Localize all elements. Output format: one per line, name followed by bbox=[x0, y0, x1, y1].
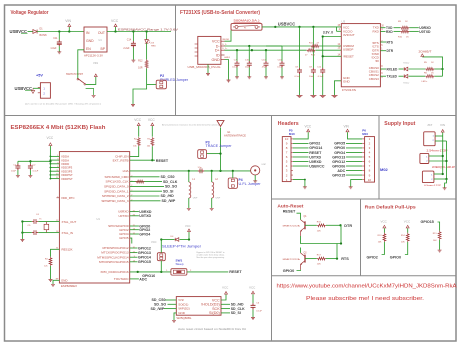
svg-text:SD_/WP: SD_/WP bbox=[151, 307, 165, 311]
svg-text:GND1: GND1 bbox=[224, 57, 231, 59]
svg-text:M10: M10 bbox=[362, 132, 368, 136]
svg-text:SD_SI: SD_SI bbox=[231, 311, 241, 315]
svg-text:0.5mm-1T2P: 0.5mm-1T2P bbox=[424, 185, 442, 187]
svg-text:(J2 can be cut to disable the: (J2 can be cut to disable the power LED … bbox=[25, 103, 101, 106]
svg-text:MMBT2222A: MMBT2222A bbox=[283, 258, 301, 261]
svg-text:ADC: ADC bbox=[139, 277, 147, 281]
svg-text:U0TXD: U0TXD bbox=[118, 214, 129, 218]
svg-text:DTR: DTR bbox=[344, 224, 352, 228]
svg-text:M10: M10 bbox=[289, 132, 295, 136]
svg-text:SD_SI: SD_SI bbox=[163, 189, 173, 193]
svg-text:ESP8266EX 4 Mbit (512KB) Flash: ESP8266EX 4 Mbit (512KB) Flash bbox=[11, 125, 106, 131]
svg-text:0.1uF: 0.1uF bbox=[33, 171, 39, 173]
svg-text:VCC: VCC bbox=[212, 40, 220, 44]
svg-text:10R: 10R bbox=[138, 67, 143, 70]
svg-text:10K: 10K bbox=[317, 264, 321, 266]
svg-text:10K: 10K bbox=[433, 240, 437, 242]
svg-text:RESET: RESET bbox=[309, 151, 322, 155]
svg-text:GPIO14: GPIO14 bbox=[138, 256, 151, 260]
svg-text:MTMSSPICLKGPIO14: MTMSSPICLKGPIO14 bbox=[97, 255, 129, 259]
svg-text:https://www.youtube.com/channe: https://www.youtube.com/channel/UCcKxM7y… bbox=[277, 283, 457, 289]
svg-text:LED's: LED's bbox=[422, 81, 429, 83]
svg-text:IN: IN bbox=[86, 31, 90, 35]
svg-text:SD_/WP: SD_/WP bbox=[162, 199, 176, 203]
svg-text:SD_SO: SD_SO bbox=[165, 185, 177, 189]
svg-text:2.2uF: 2.2uF bbox=[123, 47, 130, 50]
svg-text:EXT_RSTB: EXT_RSTB bbox=[113, 158, 129, 162]
svg-text:ADC: ADC bbox=[337, 169, 345, 173]
svg-text:2: 2 bbox=[131, 180, 132, 182]
svg-text:Please subscribe me! I need su: Please subscribe me! I need subscriber. bbox=[306, 296, 424, 302]
svg-text:U0TXD: U0TXD bbox=[419, 30, 431, 34]
svg-text:500MA(0.5A.): 500MA(0.5A.) bbox=[234, 19, 260, 23]
svg-text:RED: RED bbox=[151, 45, 156, 47]
svg-text:GPIO4: GPIO4 bbox=[139, 232, 150, 236]
svg-text:SD_CLK: SD_CLK bbox=[163, 180, 178, 184]
svg-text:VCC: VCC bbox=[185, 224, 191, 228]
svg-text:+5V: +5V bbox=[36, 73, 43, 77]
svg-text:ID: ID bbox=[216, 53, 220, 57]
svg-text:CBUS3: CBUS3 bbox=[369, 77, 379, 81]
svg-text:VCC: VCC bbox=[47, 136, 54, 140]
svg-text:!RESET: !RESET bbox=[343, 54, 354, 58]
svg-text:SPICS0SD_CMD: SPICS0SD_CMD bbox=[105, 175, 130, 179]
svg-text:RXD: RXD bbox=[386, 30, 393, 34]
svg-text:GPIO12: GPIO12 bbox=[332, 160, 345, 164]
svg-text:10K: 10K bbox=[317, 230, 321, 232]
svg-text:GPIO5: GPIO5 bbox=[334, 142, 345, 146]
svg-text:GPIO0: GPIO0 bbox=[334, 146, 345, 150]
svg-text:2.54mm-1T2P: 2.54mm-1T2P bbox=[427, 149, 449, 152]
svg-text:2: 2 bbox=[131, 200, 132, 202]
svg-text:JST: JST bbox=[427, 123, 433, 127]
svg-text:GPIO2: GPIO2 bbox=[309, 142, 320, 146]
svg-text:47pF: 47pF bbox=[262, 67, 268, 69]
svg-text:UNP: UNP bbox=[262, 164, 267, 166]
svg-text:U0TXD: U0TXD bbox=[309, 155, 321, 159]
svg-text:10: 10 bbox=[368, 178, 372, 182]
svg-text:VIN: VIN bbox=[65, 19, 71, 23]
svg-text:USB_MICROB_PLUG: USB_MICROB_PLUG bbox=[188, 66, 221, 69]
svg-text:VBUS1: VBUS1 bbox=[222, 39, 230, 41]
svg-text:RESET: RESET bbox=[229, 270, 242, 274]
svg-text:FT231XS (USB-to-Serial Convert: FT231XS (USB-to-Serial Converter) bbox=[180, 10, 260, 16]
svg-text:Yellow: Yellow bbox=[403, 63, 410, 65]
svg-text:MMBT2222A: MMBT2222A bbox=[283, 225, 301, 228]
svg-text:VCC: VCC bbox=[111, 19, 119, 23]
svg-text:GPIO15: GPIO15 bbox=[138, 260, 151, 264]
svg-text:LNA: LNA bbox=[123, 169, 130, 173]
svg-text:SD_CS0: SD_CS0 bbox=[161, 175, 175, 179]
svg-text:0.1uF: 0.1uF bbox=[277, 67, 283, 69]
svg-text:XPD_DCDCGPIO16: XPD_DCDCGPIO16 bbox=[100, 270, 128, 274]
svg-text:GND: GND bbox=[61, 279, 67, 283]
svg-text:3.3V_0: 3.3V_0 bbox=[323, 31, 333, 35]
svg-text:SWITCH-SPDT: SWITCH-SPDT bbox=[66, 73, 84, 76]
svg-text:GND: GND bbox=[178, 311, 186, 315]
svg-text:SPIWPSD_DATA_3: SPIWPSD_DATA_3 bbox=[101, 199, 128, 203]
svg-text:WJEDQ9C-S08-2P: WJEDQ9C-S08-2P bbox=[432, 166, 455, 169]
svg-text:GND: GND bbox=[343, 79, 351, 83]
svg-text:TOUTADC: TOUTADC bbox=[114, 277, 129, 281]
svg-text:MTCKSPIOGPIO13: MTCKSPIOGPIO13 bbox=[101, 251, 129, 255]
svg-text:EN: EN bbox=[86, 47, 91, 51]
svg-text:R12: R12 bbox=[138, 60, 143, 63]
svg-text:MTDOSPICSGPIO15: MTDOSPICSGPIO15 bbox=[99, 260, 129, 264]
svg-text:USBDP: USBDP bbox=[343, 47, 353, 51]
svg-text:UNP: UNP bbox=[216, 198, 221, 200]
svg-text:RXLED: RXLED bbox=[387, 67, 399, 71]
svg-text:0.1uF: 0.1uF bbox=[295, 76, 301, 78]
svg-text:Supply Input: Supply Input bbox=[384, 121, 415, 127]
svg-text:2: 2 bbox=[131, 195, 132, 197]
svg-text:2: 2 bbox=[131, 176, 132, 178]
svg-text:VCC: VCC bbox=[249, 285, 256, 289]
svg-text:VR1: VR1 bbox=[93, 61, 99, 65]
svg-text:10uF: 10uF bbox=[11, 171, 17, 173]
svg-text:VCC: VCC bbox=[222, 285, 229, 289]
svg-text:10nF: 10nF bbox=[309, 76, 315, 78]
svg-text:XTAL_IN: XTAL_IN bbox=[62, 231, 74, 235]
svg-text:VIN: VIN bbox=[440, 123, 445, 127]
svg-text:10: 10 bbox=[285, 137, 289, 141]
svg-text:GPIO14: GPIO14 bbox=[309, 146, 322, 150]
svg-text:Auto-Reset: Auto-Reset bbox=[277, 203, 303, 208]
svg-text:Must be open when programming.: Must be open when programming. bbox=[197, 256, 225, 259]
svg-text:Sleep: Sleep bbox=[176, 262, 184, 266]
svg-text:VCC: VCC bbox=[148, 118, 155, 122]
svg-text:VDD_RTC: VDD_RTC bbox=[61, 196, 75, 200]
svg-text:!RI: !RI bbox=[375, 59, 379, 63]
svg-text:SPIDSD_DATA_1: SPIDSD_DATA_1 bbox=[104, 189, 129, 193]
svg-text:SD_/HD: SD_/HD bbox=[161, 194, 175, 198]
svg-text:10K: 10K bbox=[401, 242, 405, 244]
svg-text:Run Default Pull-Ups: Run Default Pull-Ups bbox=[365, 205, 416, 210]
svg-text:BP: BP bbox=[100, 47, 105, 51]
svg-text:C11: C11 bbox=[53, 37, 58, 40]
svg-text:GPIO12: GPIO12 bbox=[138, 246, 151, 250]
svg-text:TRACE Jumper: TRACE Jumper bbox=[206, 144, 233, 148]
svg-text:RTS: RTS bbox=[341, 257, 349, 261]
svg-text:XTAL_OUT: XTAL_OUT bbox=[62, 220, 77, 224]
svg-text:SI(D0): SI(D0) bbox=[209, 311, 220, 315]
svg-text:U3: U3 bbox=[342, 19, 346, 23]
svg-text:Headers: Headers bbox=[278, 121, 299, 127]
svg-text:GPIO13: GPIO13 bbox=[332, 155, 345, 159]
svg-text:RXD: RXD bbox=[372, 29, 379, 33]
svg-text:D+: D+ bbox=[215, 49, 220, 53]
svg-text:SPICLKSD_CLK: SPICLKSD_CLK bbox=[106, 180, 130, 184]
svg-text:VDDPST: VDDPST bbox=[61, 177, 73, 181]
svg-text:FT231XS: FT231XS bbox=[342, 88, 356, 92]
svg-text:GPIO5: GPIO5 bbox=[119, 236, 129, 240]
svg-text:VCC: VCC bbox=[381, 219, 388, 223]
svg-text:0.1uF: 0.1uF bbox=[232, 67, 238, 69]
svg-text:M02: M02 bbox=[380, 167, 389, 172]
svg-text:W25Q80BL: W25Q80BL bbox=[177, 317, 193, 320]
svg-text:RESET: RESET bbox=[156, 159, 169, 163]
svg-text:SLEEP-PTH Jumper: SLEEP-PTH Jumper bbox=[162, 244, 202, 248]
svg-text:C14: C14 bbox=[127, 38, 132, 41]
svg-text:VIN: VIN bbox=[344, 125, 350, 129]
svg-text:RES12K: RES12K bbox=[62, 248, 73, 252]
svg-text:RTS: RTS bbox=[387, 40, 393, 44]
svg-text:SPIHDSD_DATA_2: SPIHDSD_DATA_2 bbox=[102, 194, 129, 198]
svg-text:BAT26: BAT26 bbox=[40, 34, 48, 37]
svg-text:USBVCC: USBVCC bbox=[278, 21, 296, 26]
svg-text:U0RXD: U0RXD bbox=[309, 160, 322, 164]
svg-text:GPIO2: GPIO2 bbox=[367, 256, 378, 260]
svg-text:GPIO0: GPIO0 bbox=[283, 269, 295, 273]
svg-text:U1: U1 bbox=[97, 217, 101, 221]
svg-text:RESET: RESET bbox=[283, 210, 296, 214]
svg-text:ANTENNATRACE: ANTENNATRACE bbox=[224, 135, 247, 138]
svg-text:2: 2 bbox=[131, 185, 132, 187]
svg-text:VCC: VCC bbox=[305, 125, 312, 129]
svg-text:UNP: UNP bbox=[193, 198, 198, 200]
svg-text:Auto reset circuit based on No: Auto reset circuit based on NodeMCU Dev … bbox=[178, 327, 246, 331]
svg-text:10K: 10K bbox=[378, 242, 382, 244]
svg-text:GPIO15: GPIO15 bbox=[421, 220, 434, 224]
svg-text:DTR: DTR bbox=[387, 49, 394, 53]
svg-text:GND: GND bbox=[211, 58, 220, 62]
svg-text:3V3OUT: 3V3OUT bbox=[343, 33, 355, 37]
svg-text:GPIO13: GPIO13 bbox=[138, 251, 151, 255]
svg-text:GPIO06: GPIO06 bbox=[332, 164, 345, 168]
svg-text:Yellow: Yellow bbox=[403, 83, 410, 85]
svg-text:OUT: OUT bbox=[98, 31, 105, 35]
svg-text:ESP8266EX: ESP8266EX bbox=[61, 285, 77, 288]
svg-text:VCC: VCC bbox=[134, 118, 141, 122]
svg-text:VCC: VCC bbox=[404, 219, 411, 223]
svg-text:ESP8266AVCC Range 1.7V-3.6V: ESP8266AVCC Range 1.7V-3.6V bbox=[118, 28, 178, 32]
svg-text:GPIO4: GPIO4 bbox=[334, 151, 345, 155]
svg-text:2: 2 bbox=[131, 190, 132, 192]
svg-text:U.FL Jumper: U.FL Jumper bbox=[239, 182, 262, 186]
svg-text:GND: GND bbox=[86, 39, 94, 43]
svg-text:1.0uF: 1.0uF bbox=[50, 47, 57, 50]
svg-text:0.1uF: 0.1uF bbox=[318, 76, 324, 78]
svg-text:GPIO15: GPIO15 bbox=[332, 173, 345, 177]
svg-text:AP2112K-3.3V: AP2112K-3.3V bbox=[84, 54, 103, 57]
svg-text:Voltage Regulator: Voltage Regulator bbox=[11, 10, 49, 16]
svg-text:USBVCC: USBVCC bbox=[309, 164, 325, 168]
svg-text:U0TXD: U0TXD bbox=[139, 214, 151, 218]
svg-text:VCC: VCC bbox=[151, 240, 157, 244]
svg-text:MTDISPIOGPIO12: MTDISPIOGPIO12 bbox=[102, 246, 128, 250]
svg-text:TXLED: TXLED bbox=[387, 75, 398, 79]
svg-text:2OA85/T: 2OA85/T bbox=[419, 51, 433, 54]
svg-text:SPIQSD_DATA_0: SPIQSD_DATA_0 bbox=[104, 185, 129, 189]
svg-text:GPIO0: GPIO0 bbox=[390, 256, 401, 260]
svg-text:47pF: 47pF bbox=[245, 67, 251, 69]
svg-text:0.1uF: 0.1uF bbox=[256, 310, 262, 312]
svg-text:All anti-Detection resistance: All anti-Detection resistance must be de… bbox=[162, 123, 220, 126]
